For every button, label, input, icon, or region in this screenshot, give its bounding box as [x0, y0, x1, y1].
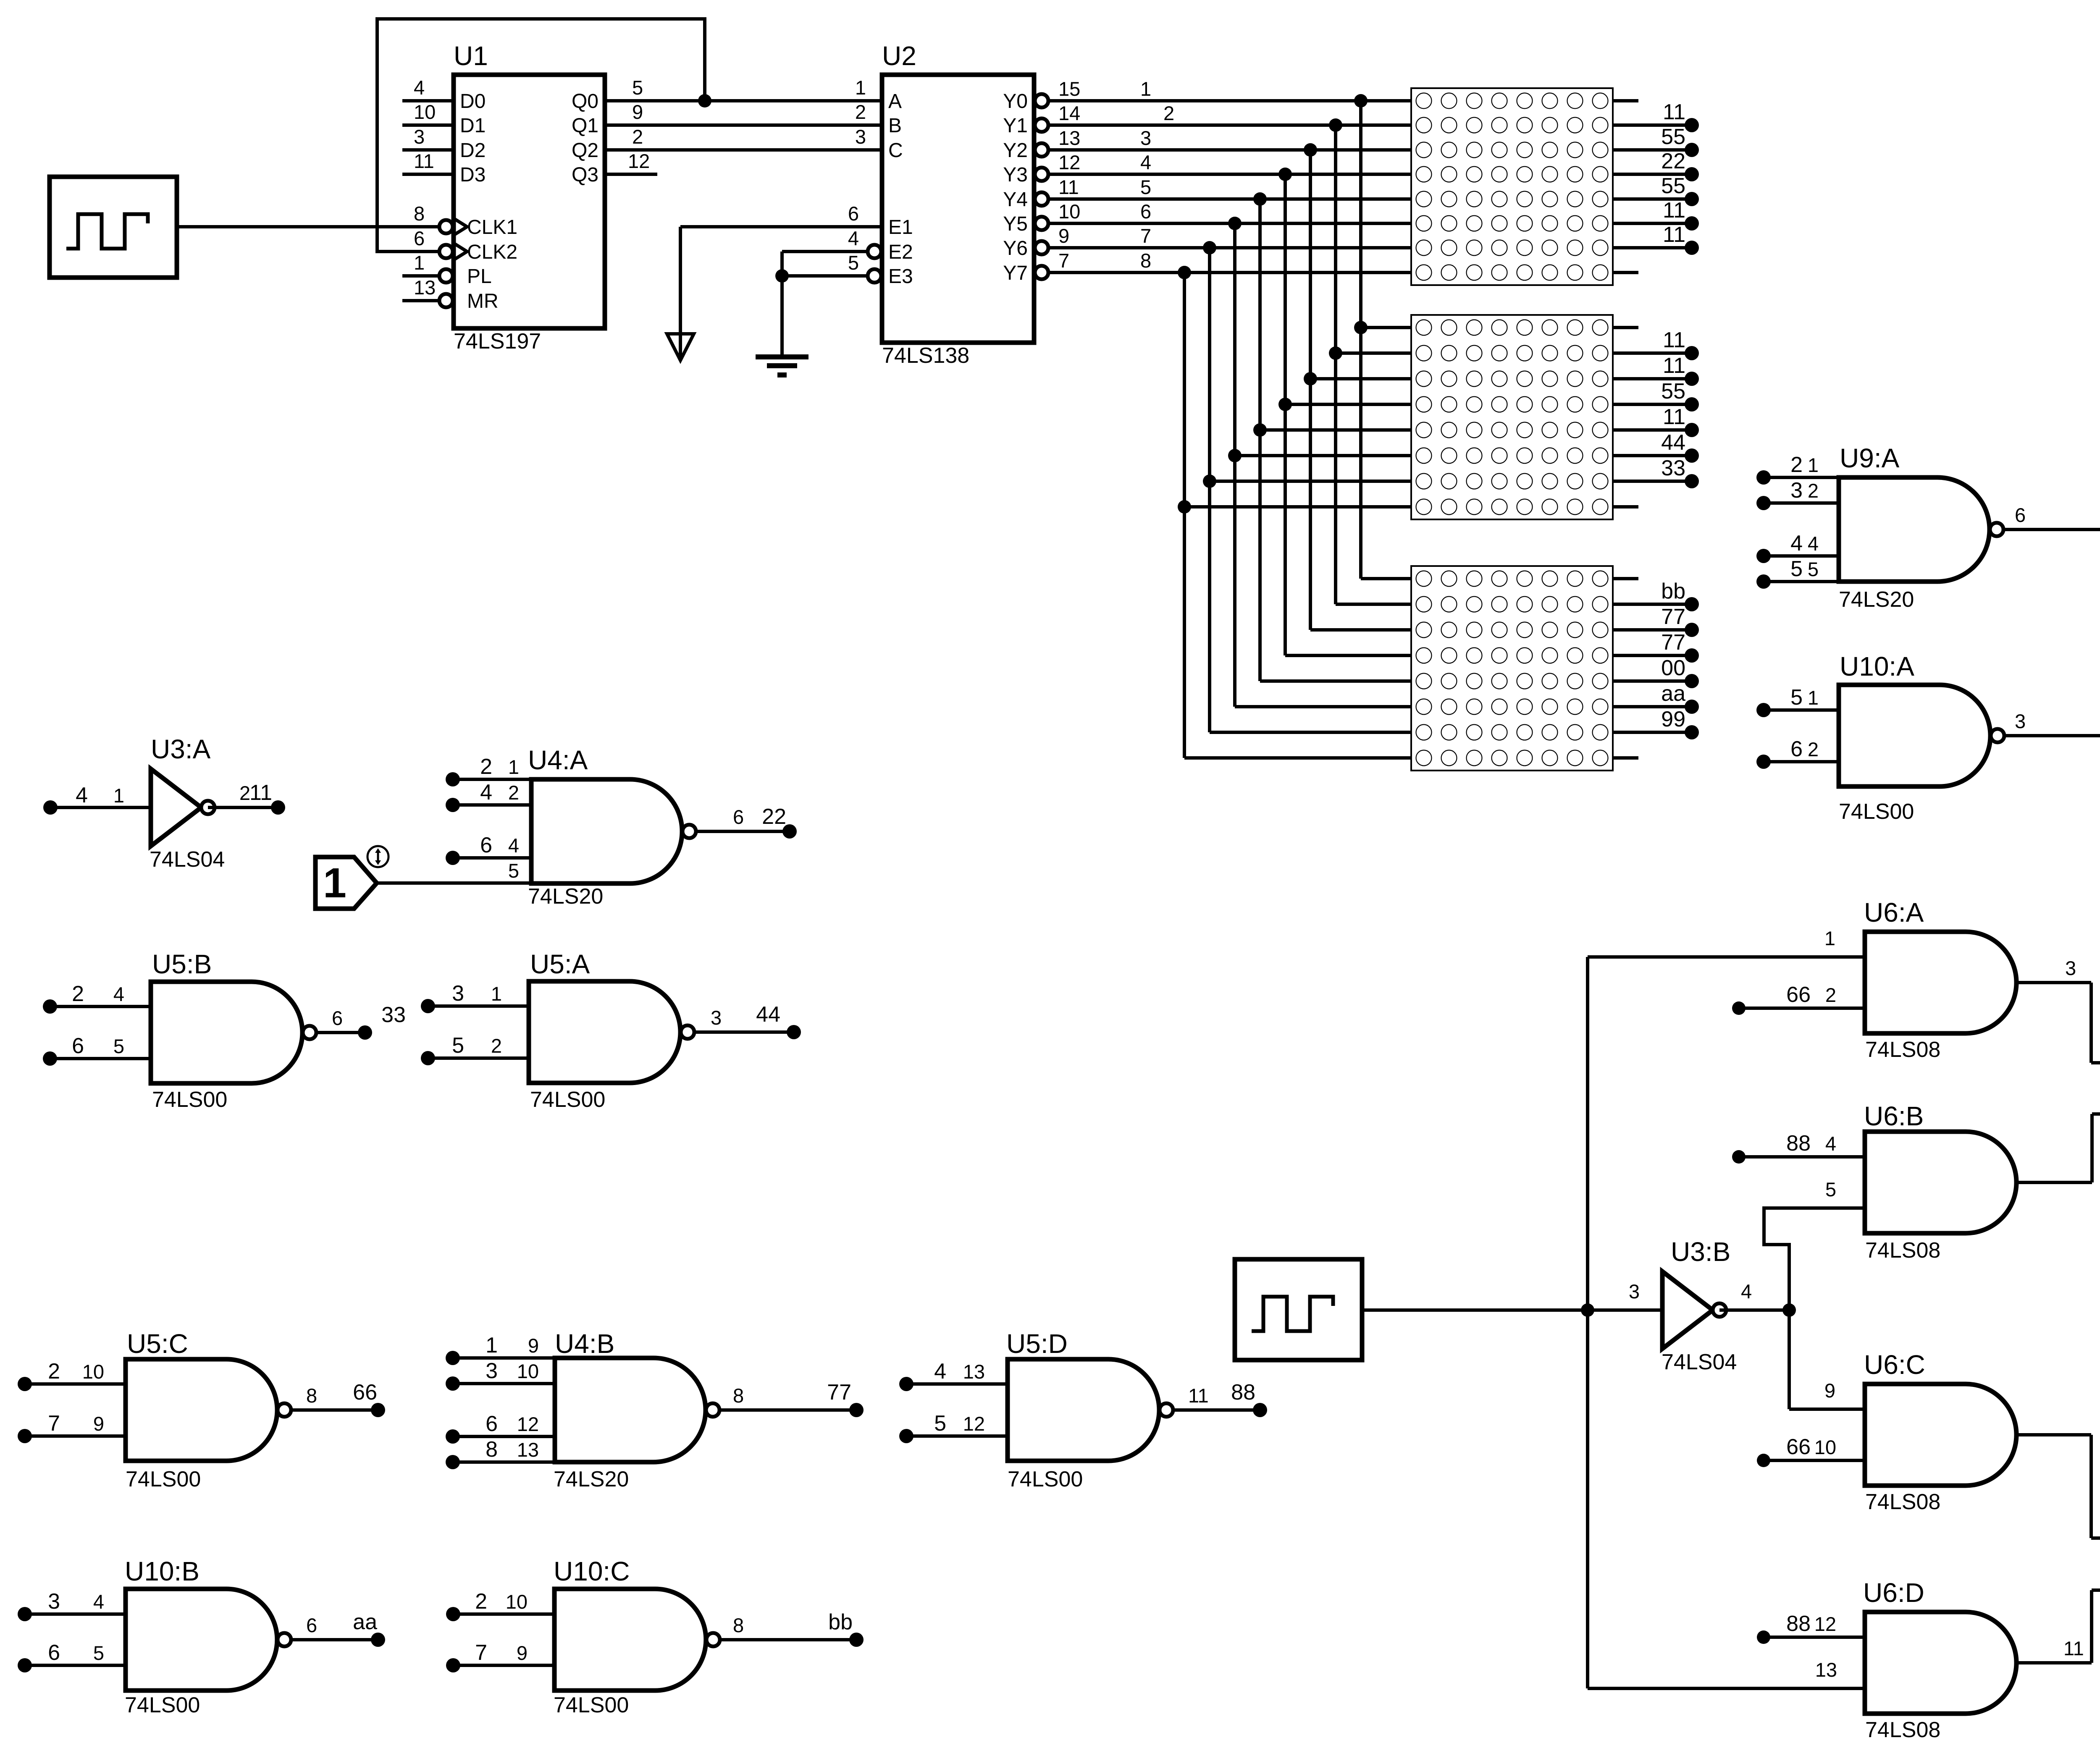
svg-text:11: 11	[1663, 100, 1685, 124]
svg-text:E3: E3	[888, 265, 913, 288]
svg-text:2: 2	[1163, 102, 1174, 124]
wire 1-box to U4:A pin 5	[377, 881, 531, 885]
svg-text:2: 2	[48, 1359, 60, 1384]
svg-text:4: 4	[76, 783, 88, 807]
svg-text:00: 00	[1661, 656, 1685, 680]
wire U2 Y2 output row, pin 13	[1035, 143, 1048, 157]
svg-text:U4:A: U4:A	[528, 745, 588, 775]
svg-text:88: 88	[1786, 1131, 1811, 1156]
svg-text:2: 2	[72, 982, 84, 1006]
wire U3:A input net 4 pin 1	[43, 800, 58, 815]
svg-text:8: 8	[306, 1384, 317, 1407]
chip U2 74LS138	[882, 75, 1034, 343]
svg-text:6: 6	[2015, 504, 2026, 526]
svg-text:3: 3	[452, 981, 464, 1006]
net aa from DM3 row 6	[1613, 705, 1692, 708]
wire DM3 row1 right stub	[1613, 577, 1638, 580]
svg-text:6: 6	[486, 1412, 498, 1436]
svg-text:U9:A: U9:A	[1840, 443, 1900, 473]
svg-text:1: 1	[414, 252, 425, 274]
wire Q2 to U2 C, pin 2	[605, 148, 882, 152]
svg-text:12: 12	[1814, 1613, 1836, 1635]
wire U5:D input net 5 pin 12	[899, 1429, 913, 1443]
svg-text:11: 11	[1663, 223, 1685, 247]
junction DM2 row 7 feed	[1203, 474, 1216, 488]
nand U10:B 74LS00	[126, 1589, 277, 1691]
svg-text:4: 4	[508, 834, 519, 857]
svg-text:8: 8	[414, 202, 425, 225]
net 11 from DM1 row 6	[1613, 222, 1692, 225]
wire U5:A output pin 3 net 44	[694, 1030, 794, 1034]
svg-text:74LS04: 74LS04	[1662, 1350, 1737, 1374]
svg-text:11: 11	[1663, 354, 1685, 378]
svg-text:66: 66	[1786, 983, 1811, 1007]
wire U4:B input net 3 pin 10	[446, 1376, 460, 1391]
svg-text:6: 6	[480, 833, 492, 857]
svg-text:3: 3	[486, 1359, 498, 1383]
svg-text:5: 5	[1140, 176, 1151, 198]
svg-text:U4:B: U4:B	[555, 1329, 614, 1359]
svg-text:74LS20: 74LS20	[554, 1467, 629, 1491]
junction Y5 at row feed	[1228, 217, 1242, 230]
U1 pin D0 stub	[402, 99, 454, 102]
svg-text:11: 11	[1663, 405, 1685, 429]
net 22 from DM1 row 4	[1613, 173, 1692, 176]
junction DM2 row 4 feed	[1278, 398, 1292, 411]
svg-text:Y0: Y0	[1003, 90, 1028, 113]
clock source CLK2 (pulse generator)	[1235, 1259, 1362, 1360]
svg-text:3: 3	[2015, 710, 2026, 732]
svg-text:44: 44	[756, 1002, 780, 1027]
wire U9:A input net 4 pin 4	[1756, 549, 1771, 563]
wire U2 Y4 output row, pin 11	[1035, 192, 1048, 206]
svg-text:6: 6	[733, 806, 744, 828]
svg-text:74LS00: 74LS00	[125, 1693, 200, 1717]
U1 pin D3 stub	[402, 173, 454, 176]
U1 MR bubble and stub, pin 13	[439, 294, 453, 307]
svg-text:2: 2	[1808, 480, 1819, 502]
svg-text:6: 6	[414, 227, 425, 249]
wire U10:A input net 6 pin 2	[1756, 755, 1771, 769]
svg-text:4: 4	[934, 1359, 946, 1384]
svg-text:11: 11	[249, 781, 272, 805]
svg-text:4: 4	[113, 983, 124, 1005]
wire Y0 drop to DM2/DM3 row 1	[1359, 101, 1362, 579]
svg-text:33: 33	[1661, 456, 1685, 480]
junction Y6 at row feed	[1203, 241, 1216, 254]
svg-text:9: 9	[1824, 1379, 1835, 1402]
svg-text:44: 44	[1661, 430, 1685, 455]
svg-text:CLK2: CLK2	[467, 241, 517, 263]
svg-text:3: 3	[855, 126, 866, 148]
net 55 from DM1 row 3	[1613, 148, 1692, 152]
svg-text:1: 1	[1808, 454, 1819, 476]
svg-text:7: 7	[48, 1411, 60, 1436]
svg-text:99: 99	[1661, 707, 1685, 731]
svg-text:4: 4	[1790, 531, 1803, 556]
svg-text:74LS00: 74LS00	[152, 1088, 227, 1112]
wire U4:A input net 4 pin 2	[446, 798, 460, 812]
svg-text:1: 1	[1140, 78, 1151, 100]
junction DM2 row 8 feed	[1178, 500, 1191, 514]
wire DM1 row1 right stub	[1613, 99, 1638, 102]
svg-text:5: 5	[632, 76, 643, 99]
nand U5:C 74LS00	[126, 1359, 277, 1461]
wire U5:C output pin 8 net 66	[291, 1408, 378, 1412]
wire U3:B output down to U6:C pin 9	[1788, 1310, 1791, 1409]
wire U4:A input net 6 pin 4	[446, 851, 460, 865]
svg-text:33: 33	[381, 1003, 406, 1027]
svg-text:Y5: Y5	[1003, 213, 1028, 235]
svg-text:88: 88	[1231, 1380, 1255, 1405]
svg-text:74LS197: 74LS197	[454, 329, 541, 354]
svg-text:6: 6	[332, 1007, 343, 1029]
svg-text:74LS20: 74LS20	[528, 884, 603, 909]
svg-text:9: 9	[528, 1334, 539, 1357]
svg-text:11: 11	[1188, 1384, 1209, 1407]
svg-text:7: 7	[1058, 249, 1069, 272]
wire U6:D output pin 11 to U7:B pin 5	[2016, 1661, 2092, 1664]
net 55 from DM2 row 4	[1613, 403, 1692, 406]
svg-text:2: 2	[1790, 453, 1803, 477]
junction E2/E3 net	[775, 269, 789, 283]
svg-text:2: 2	[475, 1589, 487, 1614]
svg-text:7: 7	[475, 1641, 487, 1665]
wire U5:A input net 3 pin 1	[421, 999, 435, 1013]
svg-text:2: 2	[480, 755, 492, 779]
junction Y2 at row feed	[1304, 143, 1317, 157]
svg-text:88: 88	[1786, 1612, 1811, 1636]
svg-text:8: 8	[733, 1384, 744, 1407]
svg-text:55: 55	[1661, 125, 1685, 149]
nand U5:A 74LS00	[529, 981, 680, 1083]
svg-text:3: 3	[1629, 1280, 1640, 1303]
svg-text:1: 1	[508, 756, 519, 778]
U1 CLK2 bubble and clock wedge, pin 6	[439, 245, 453, 258]
svg-text:14: 14	[1058, 102, 1080, 124]
nand U10:A 74LS00	[1839, 685, 1990, 786]
svg-text:11: 11	[1663, 198, 1685, 223]
nand U4:B 74LS20	[555, 1358, 706, 1462]
svg-text:aa: aa	[1661, 681, 1685, 706]
wire U6:A input net 66 pin 2	[1732, 1001, 1746, 1015]
svg-text:6: 6	[848, 202, 859, 225]
svg-text:E1: E1	[888, 216, 913, 239]
clock source CLK1 (pulse generator)	[50, 177, 177, 278]
svg-text:9: 9	[93, 1413, 104, 1435]
wire U10:B input net 3 pin 4	[18, 1607, 32, 1621]
svg-text:U2: U2	[882, 41, 916, 71]
net 11 from DM2 row 3	[1613, 377, 1692, 380]
svg-text:D2: D2	[460, 139, 486, 162]
svg-text:4: 4	[1140, 151, 1151, 173]
svg-text:1: 1	[113, 784, 124, 807]
wire U10:C input net 7 pin 9	[446, 1658, 460, 1672]
wire U4:B input net 6 pin 12	[446, 1429, 460, 1444]
nand U10:C 74LS00	[554, 1589, 706, 1691]
svg-text:Y6: Y6	[1003, 237, 1028, 259]
U1 pin D1 stub	[402, 123, 454, 127]
svg-text:22: 22	[762, 805, 786, 829]
U1 PL bubble and stub, pin 1	[439, 269, 453, 283]
svg-text:6: 6	[306, 1614, 317, 1636]
svg-text:66: 66	[353, 1380, 377, 1405]
svg-text:55: 55	[1661, 379, 1685, 404]
wire U2 Y7 output row, pin 7	[1035, 266, 1048, 279]
svg-text:U5:D: U5:D	[1006, 1329, 1068, 1359]
svg-text:12: 12	[517, 1413, 539, 1435]
svg-text:13: 13	[1058, 127, 1080, 149]
svg-text:2: 2	[239, 782, 250, 804]
svg-text:5: 5	[848, 252, 859, 274]
toggle circle with up-down arrow	[367, 846, 388, 867]
wire U10:C input net 2 pin 10	[446, 1607, 460, 1621]
junction Y3 at row feed	[1278, 168, 1292, 181]
wire U5:B input net 6 pin 5	[43, 1051, 57, 1066]
svg-text:5: 5	[1790, 685, 1803, 710]
svg-text:11: 11	[1058, 176, 1079, 198]
svg-text:U5:A: U5:A	[530, 949, 590, 979]
wire clock2 rail to U6:A pin 1	[1588, 955, 1865, 959]
net 99 from DM3 row 7	[1613, 731, 1692, 734]
wire Q3 stub, pin 12	[605, 173, 657, 176]
junction Y1 at row feed	[1329, 118, 1342, 132]
svg-text:bb: bb	[828, 1610, 853, 1634]
wire U2 Y1 output row, pin 14	[1035, 118, 1048, 132]
svg-text:Y2: Y2	[1003, 139, 1028, 162]
svg-text:2: 2	[508, 781, 519, 804]
wire U10:B input net 6 pin 5	[18, 1658, 32, 1672]
wire U3:B output pin 4	[1719, 1308, 1789, 1312]
wire Y4 drop to DM2/DM3 row 5	[1258, 199, 1262, 681]
svg-text:3: 3	[1140, 127, 1151, 149]
junction DM2 row 1 feed	[1354, 321, 1368, 334]
svg-text:4: 4	[1741, 1280, 1752, 1303]
svg-text:D0: D0	[460, 90, 486, 113]
svg-text:1: 1	[491, 983, 502, 1005]
junction DM2 row 5 feed	[1253, 423, 1267, 437]
svg-text:U10:C: U10:C	[554, 1556, 630, 1586]
wire Q0 feedback loop to CLK2	[377, 19, 705, 252]
svg-text:5: 5	[452, 1033, 464, 1058]
wire U5:C input net 7 pin 9	[18, 1429, 32, 1443]
svg-text:5: 5	[1825, 1178, 1836, 1200]
svg-text:Y4: Y4	[1003, 189, 1028, 211]
svg-text:2: 2	[491, 1035, 502, 1057]
svg-text:U5:C: U5:C	[127, 1329, 188, 1359]
wire U6:C input net 66 pin 10	[1757, 1454, 1770, 1467]
wire U2 Y3 output row, pin 12	[1035, 168, 1048, 181]
svg-text:1: 1	[1808, 687, 1819, 709]
nand U5:D 74LS00	[1008, 1359, 1159, 1461]
svg-text:74LS00: 74LS00	[554, 1693, 629, 1717]
wire U6:B output pin 6 to U7:A pin 2	[2016, 1181, 2092, 1184]
U2 E3 bubble and wire, pin 5	[868, 269, 881, 283]
svg-text:4: 4	[1825, 1132, 1836, 1155]
junction DM2 row 3 feed	[1304, 372, 1317, 385]
wire U5:A input net 5 pin 2	[421, 1051, 435, 1065]
wire Y5 drop to DM2/DM3 row 6	[1233, 223, 1236, 707]
net 33 from DM2 row 7	[1613, 480, 1692, 483]
svg-text:5: 5	[93, 1642, 104, 1664]
svg-text:4: 4	[414, 76, 425, 99]
svg-text:Q0: Q0	[572, 90, 598, 113]
svg-text:U10:A: U10:A	[1840, 651, 1914, 681]
U1 pin D2 stub	[402, 148, 454, 152]
svg-text:U3:B: U3:B	[1671, 1237, 1730, 1267]
svg-text:Y1: Y1	[1003, 115, 1028, 137]
ground symbol	[756, 354, 808, 359]
svg-text:74LS00: 74LS00	[1839, 799, 1914, 824]
wire U2 Y0 output row, pin 15	[1035, 94, 1048, 107]
wire Y6 drop to DM2/DM3 row 7	[1208, 248, 1211, 732]
svg-text:A: A	[888, 90, 902, 113]
net 11 from DM2 row 5	[1613, 428, 1692, 432]
svg-text:U5:B: U5:B	[152, 949, 212, 979]
svg-text:U10:B: U10:B	[125, 1556, 199, 1586]
wire U5:D output pin 11 net 88	[1173, 1408, 1260, 1412]
net 00 from DM3 row 5	[1613, 679, 1692, 683]
svg-text:U6:D: U6:D	[1863, 1578, 1924, 1608]
wire U10:A input net 5 pin 1	[1756, 703, 1771, 717]
svg-text:1: 1	[323, 860, 346, 907]
wire U3:B output to U6:B pin 5	[1764, 1208, 1865, 1310]
svg-text:U6:C: U6:C	[1864, 1350, 1925, 1380]
wire U9:A output pin 6 to U7:C pin 9	[2003, 528, 2100, 531]
svg-text:77: 77	[827, 1380, 851, 1405]
svg-text:2: 2	[1825, 984, 1836, 1006]
svg-text:6: 6	[1140, 200, 1151, 223]
svg-text:74LS04: 74LS04	[150, 847, 225, 872]
svg-text:74LS00: 74LS00	[1008, 1467, 1083, 1491]
svg-text:13: 13	[1815, 1659, 1837, 1681]
svg-text:15: 15	[1058, 78, 1080, 100]
svg-text:8: 8	[733, 1614, 744, 1636]
svg-text:74LS08: 74LS08	[1865, 1490, 1940, 1514]
wire U10:A output pin 3 to U7:C pin 10	[2004, 734, 2100, 737]
wire clock2 rail vertical	[1586, 957, 1589, 1688]
svg-text:1: 1	[855, 76, 866, 99]
svg-text:74LS20: 74LS20	[1839, 587, 1914, 612]
junction U3:B output	[1782, 1303, 1796, 1317]
wire clock1 to U1 CLK1	[177, 225, 438, 228]
wire Q1 to U2 B, pin 9	[605, 123, 882, 127]
svg-text:74LS08: 74LS08	[1865, 1238, 1940, 1263]
svg-text:13: 13	[414, 276, 436, 299]
svg-text:3: 3	[414, 126, 425, 148]
wire clock2 rail to U6:D pin 13	[1588, 1687, 1865, 1690]
svg-text:74LS138: 74LS138	[882, 343, 969, 368]
and U6:B 74LS08	[1865, 1132, 2016, 1233]
svg-text:6: 6	[48, 1641, 60, 1665]
svg-text:77: 77	[1661, 630, 1685, 655]
svg-text:aa: aa	[353, 1610, 377, 1634]
junction clock2 net to vertical rail	[1581, 1303, 1594, 1317]
svg-text:74LS00: 74LS00	[126, 1467, 201, 1491]
wire DM1 row8 right stub	[1613, 271, 1638, 274]
wire U2 E1 to float arrow, pin 6	[680, 225, 882, 228]
svg-text:11: 11	[2063, 1637, 2084, 1659]
wire U4:B output pin 8 net 77	[719, 1408, 856, 1412]
svg-text:10: 10	[1814, 1436, 1836, 1458]
wire clock2 to U3:B input	[1362, 1308, 1662, 1312]
svg-text:10: 10	[517, 1360, 539, 1382]
svg-text:12: 12	[1058, 151, 1080, 173]
svg-text:Y7: Y7	[1003, 262, 1028, 284]
svg-text:U1: U1	[454, 41, 488, 71]
svg-text:Q2: Q2	[572, 139, 598, 162]
svg-text:4: 4	[1808, 532, 1819, 555]
svg-text:2: 2	[1808, 738, 1819, 760]
svg-text:3: 3	[1790, 478, 1803, 503]
svg-text:3: 3	[2065, 957, 2076, 979]
wire U6:D input net 88 pin 12	[1757, 1630, 1770, 1644]
svg-text:4: 4	[848, 227, 859, 249]
net 11 from DM1 row 7	[1613, 246, 1692, 249]
svg-text:C: C	[888, 139, 903, 162]
svg-text:10: 10	[506, 1591, 528, 1613]
wire U6:C output pin 8 to U7:B pin 4	[2016, 1433, 2091, 1436]
svg-text:PL: PL	[467, 265, 492, 288]
wire U10:C output pin 8 net bb	[720, 1638, 856, 1641]
svg-text:5: 5	[1808, 558, 1819, 580]
svg-text:77: 77	[1661, 605, 1685, 629]
wire U5:C input net 2 pin 10	[18, 1377, 32, 1391]
svg-text:10: 10	[1058, 200, 1080, 223]
wire U6:B input net 88 pin 4	[1732, 1150, 1746, 1164]
svg-text:6: 6	[1790, 737, 1803, 761]
wire U2 Y5 output row, pin 10	[1035, 217, 1048, 230]
svg-text:8: 8	[1140, 249, 1151, 272]
wire U4:A input net 2 pin 1	[446, 772, 460, 786]
svg-text:9: 9	[1058, 225, 1069, 247]
wire U3:A output pin 2 net 11	[208, 806, 278, 809]
junction Y0 at row feed	[1354, 94, 1368, 107]
chip U1 74LS197	[454, 75, 605, 328]
svg-text:U6:A: U6:A	[1864, 897, 1924, 928]
svg-text:3: 3	[48, 1589, 60, 1614]
wire U10:B output pin 6 net aa	[291, 1638, 378, 1641]
svg-text:Q1: Q1	[572, 115, 598, 137]
svg-text:74LS08: 74LS08	[1865, 1718, 1940, 1742]
LED matrix display DM2 (8x8)	[1411, 315, 1613, 519]
wire DM2 row8 right stub	[1613, 505, 1638, 508]
net 77 from DM3 row 3	[1613, 628, 1692, 632]
svg-text:1: 1	[1824, 927, 1835, 949]
wire U9:A input net 3 pin 2	[1756, 496, 1771, 510]
junction Y4 at row feed	[1253, 192, 1267, 206]
svg-text:bb: bb	[1661, 579, 1685, 603]
svg-text:6: 6	[72, 1034, 84, 1058]
junction DM2 row 6 feed	[1228, 449, 1242, 462]
wire U5:B output pin 6 net 33	[316, 1031, 365, 1034]
wire U6:A output pin 3 to U7:A pin 1	[2016, 981, 2091, 984]
svg-text:22: 22	[1661, 149, 1685, 173]
svg-text:10: 10	[414, 101, 436, 123]
svg-text:12: 12	[628, 150, 650, 172]
svg-text:D3: D3	[460, 164, 486, 186]
float terminal arrow on E1 net	[667, 334, 694, 360]
svg-text:E2: E2	[888, 241, 913, 263]
svg-text:74LS08: 74LS08	[1865, 1038, 1940, 1062]
svg-text:74LS00: 74LS00	[530, 1088, 605, 1112]
svg-text:10: 10	[82, 1360, 104, 1383]
net 11 from DM2 row 2	[1613, 351, 1692, 355]
svg-text:D1: D1	[460, 115, 486, 137]
svg-text:5: 5	[113, 1035, 124, 1057]
svg-text:5: 5	[934, 1411, 946, 1436]
wire U2 Y6 output row, pin 9	[1035, 241, 1048, 254]
